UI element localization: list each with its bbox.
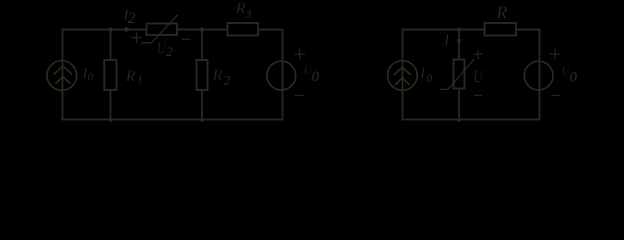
current arrow I on middle branch <box>457 39 462 46</box>
label R2 <box>212 67 231 88</box>
polarity + of U2 <box>131 33 141 43</box>
node: junction at R1 top <box>109 28 113 32</box>
node: junction middle branch bottom <box>457 118 461 122</box>
svg-text:2: 2 <box>128 10 136 27</box>
label I2 (current through U2) <box>122 7 136 27</box>
resistor R <box>485 23 517 36</box>
current source I0 (right circuit) <box>388 61 418 91</box>
variable resistor U2 arrow (diagonal) <box>142 15 178 43</box>
resistor R1 <box>104 60 116 90</box>
polarity - of U0 (left) <box>296 94 303 96</box>
svg-text:2: 2 <box>224 73 231 88</box>
wire: left circuit right vertical <box>282 30 284 120</box>
svg-text:0: 0 <box>88 73 94 84</box>
svg-text:0: 0 <box>426 73 432 85</box>
svg-text:1: 1 <box>137 74 143 86</box>
svg-text:R: R <box>212 67 223 84</box>
wire: right circuit right vertical <box>539 30 541 120</box>
node: junction at R2 top <box>200 28 204 32</box>
wire: left circuit top wire <box>63 29 147 31</box>
wire: left circuit bottom wire <box>63 119 283 121</box>
svg-text:R: R <box>235 1 246 18</box>
svg-text:I: I <box>419 65 426 82</box>
label R1 <box>125 68 143 86</box>
label I (right branch current) <box>443 32 450 49</box>
svg-text:R: R <box>125 68 136 85</box>
polarity + of U0 (left) <box>295 49 305 59</box>
svg-text:R: R <box>495 3 507 23</box>
svg-text:0: 0 <box>570 70 578 86</box>
wire: middle branch vertical (U) <box>458 30 460 120</box>
wire: top wire between U2 and R3 <box>177 29 228 31</box>
wire: right circuit top wire <box>403 29 485 31</box>
resistor R2 <box>197 60 208 90</box>
svg-text:0: 0 <box>312 69 320 85</box>
svg-text:2: 2 <box>166 45 172 59</box>
polarity + of U0 (right) <box>550 49 560 59</box>
label U0 (left) <box>304 62 320 85</box>
polarity - of U <box>474 94 482 96</box>
resistor R3 <box>228 23 259 36</box>
label R <box>495 3 507 23</box>
wire: R1 branch vertical <box>110 30 112 120</box>
current source I0 (left circuit) <box>47 61 77 91</box>
polarity + of U <box>474 50 482 58</box>
polarity - of U0 (right) <box>552 94 559 96</box>
wire: R2 branch vertical <box>201 30 203 120</box>
variable resistor U arrow (diagonal) <box>441 60 474 90</box>
variable resistor U2 (rheostat body) <box>147 24 178 36</box>
node: junction at R1 bottom <box>109 118 113 122</box>
svg-text:U: U <box>473 67 483 88</box>
voltage source U0 (right circuit) <box>524 61 553 90</box>
polarity - of U2 <box>182 38 190 40</box>
node: junction at R2 bottom <box>200 118 204 122</box>
wire: right circuit left vertical <box>402 30 404 120</box>
node: junction middle branch top <box>457 28 461 32</box>
wire: left circuit left vertical <box>62 30 64 120</box>
label R3 <box>235 1 252 21</box>
wire: right circuit bottom wire <box>403 119 540 121</box>
wire: right circuit top wire right of R <box>516 29 540 31</box>
current arrow I2 on top wire <box>125 27 132 32</box>
label I0 (right source) <box>419 65 432 85</box>
wire: top wire right of R3 <box>258 29 283 31</box>
label I0 (left source) <box>81 65 93 83</box>
label U0 (right) <box>562 63 578 86</box>
label U2 <box>157 39 172 59</box>
label U (voltage across variable resistor) <box>473 67 483 88</box>
svg-text:I: I <box>443 32 450 49</box>
svg-text:3: 3 <box>245 8 252 20</box>
voltage source U0 (left circuit) <box>267 61 296 90</box>
variable resistor U (body) <box>454 60 465 89</box>
